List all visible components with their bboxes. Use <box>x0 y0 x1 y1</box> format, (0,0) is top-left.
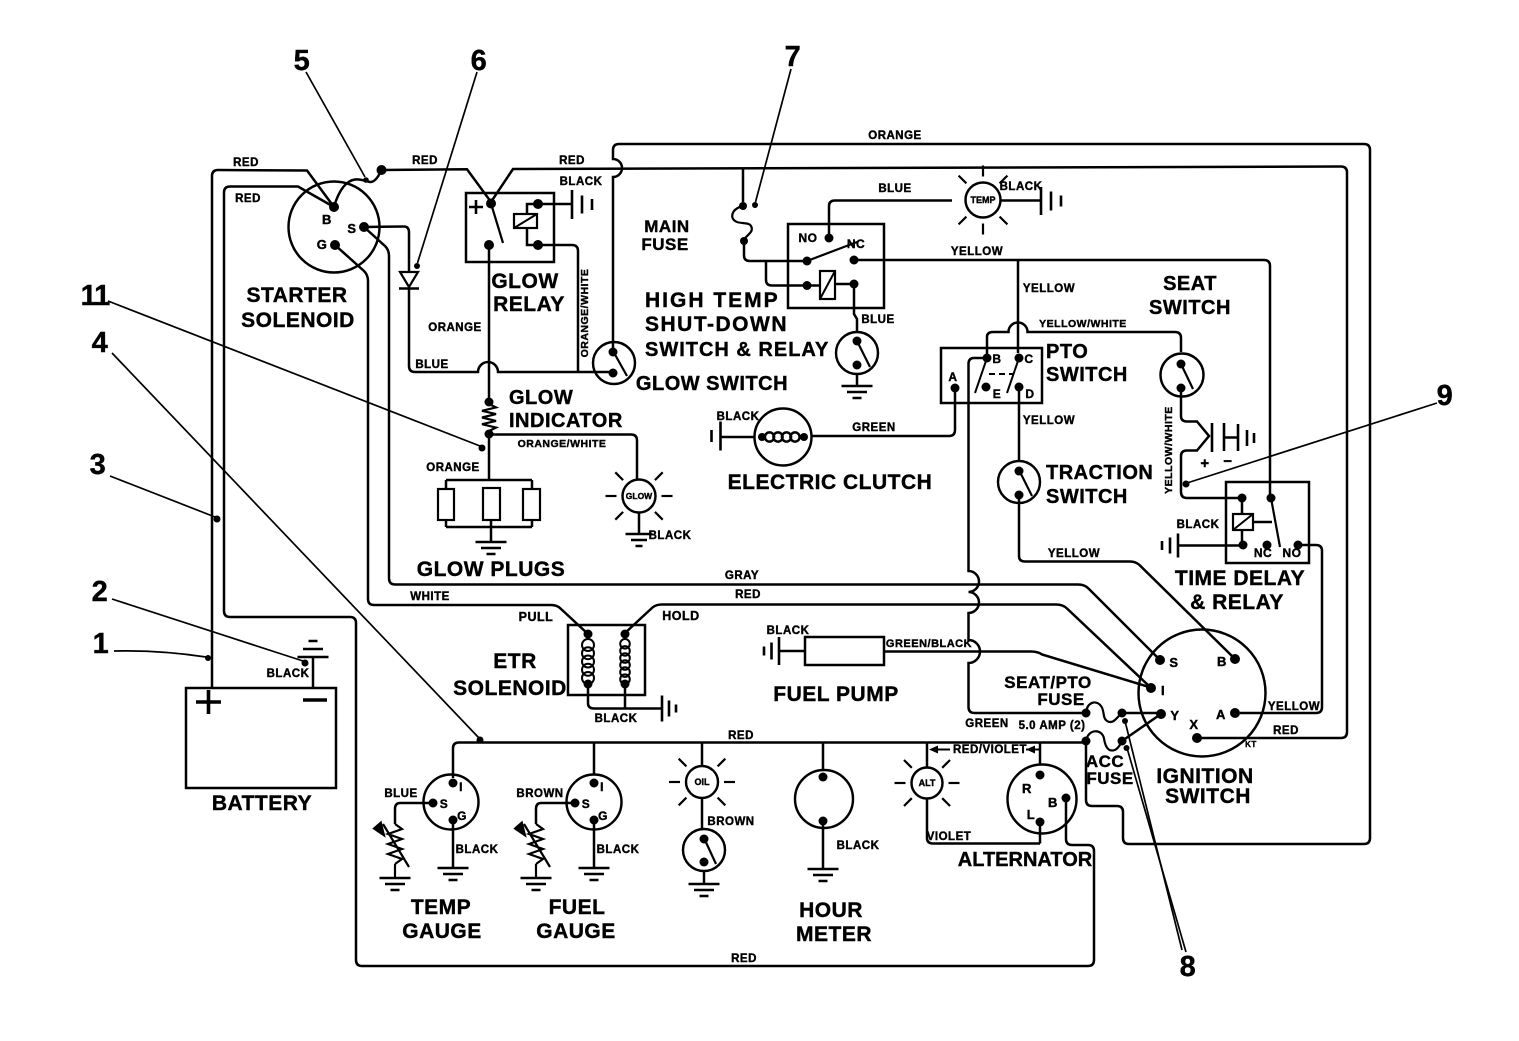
svg-text:PULL: PULL <box>519 610 554 624</box>
leader 1 dot <box>205 655 211 661</box>
shut-down switch blade <box>857 341 870 367</box>
PTO terminal D <box>1015 383 1024 392</box>
svg-text:ETR: ETR <box>493 650 537 673</box>
glow relay switch blade <box>491 204 503 244</box>
time relay NC terminal <box>1263 541 1272 550</box>
wire RED gauges bus from temp gauge corner to acc fuse <box>453 741 1086 778</box>
svg-text:BLUE: BLUE <box>384 788 417 800</box>
temp sender rheostat ground <box>380 878 411 890</box>
ground glow lamp <box>626 534 653 546</box>
alternator terminal L <box>1036 818 1045 827</box>
wire alternator L down to violet run <box>1039 822 1042 844</box>
leader 6 <box>418 72 478 263</box>
fuel pump body <box>805 637 884 665</box>
svg-text:SWITCH: SWITCH <box>1149 297 1231 319</box>
svg-text:KT: KT <box>1245 740 1257 749</box>
glow plugs top rail <box>446 479 532 482</box>
glow relay coil top terminal <box>533 199 543 209</box>
svg-text:VIOLET: VIOLET <box>927 831 972 843</box>
seat/pto fuse left terminal <box>1082 709 1091 718</box>
wire time relay NO to ignition A (YELLOW) <box>1240 545 1322 713</box>
wire glow relay coil bottom right and down (ORANGE/WHITE) <box>538 245 578 371</box>
ground temp sender <box>1041 187 1061 215</box>
svg-text:+: + <box>1200 455 1209 472</box>
svg-text:GAUGE: GAUGE <box>536 920 616 943</box>
glow indicator lamp <box>623 480 656 513</box>
svg-text:S: S <box>582 797 591 811</box>
wire acc fuse to ignition Y <box>1122 716 1158 741</box>
svg-text:S: S <box>1169 655 1178 670</box>
wire oil lamp drop <box>701 743 704 767</box>
hour meter top terminal <box>819 773 828 782</box>
svg-text:1: 1 <box>93 628 110 660</box>
time relay coil bottom terminal <box>1239 541 1248 550</box>
wire time relay coil to blade link <box>1253 521 1272 524</box>
ETR pull coil top <box>584 630 593 639</box>
leader 2 <box>112 599 303 661</box>
svg-text:HIGH TEMP: HIGH TEMP <box>645 289 780 312</box>
wire glow relay coil top link <box>527 204 538 214</box>
temp gauge terminal I <box>449 779 458 788</box>
svg-text:BROWN: BROWN <box>707 816 754 828</box>
oil pressure lamp <box>686 766 718 798</box>
time relay coil top terminal <box>1238 494 1247 503</box>
seat switch top terminal <box>1177 360 1186 369</box>
ETR pull coil bottom <box>584 680 593 689</box>
svg-text:STARTER: STARTER <box>246 284 347 307</box>
svg-text:B: B <box>1217 654 1227 669</box>
leader 4 dot <box>477 737 484 744</box>
wire fuel pump to ground <box>780 650 805 653</box>
svg-text:I: I <box>459 780 463 794</box>
wire YELLOW/WHITE: PTO B up, right with hop over yellow, down to seat switch <box>987 323 1181 359</box>
wire glow relay coil top to ground <box>538 203 571 206</box>
svg-text:7: 7 <box>785 41 802 73</box>
wire branch to relay coil + <box>766 261 803 286</box>
svg-text:ORANGE/WHITE: ORANGE/WHITE <box>579 269 591 358</box>
wire VIOLET alt lamp to alternator L <box>927 799 1040 844</box>
svg-text:YELLOW: YELLOW <box>1023 283 1075 295</box>
svg-text:FUSE: FUSE <box>1037 690 1084 709</box>
relay coil right terminal <box>850 280 859 289</box>
svg-text:YELLOW: YELLOW <box>1023 415 1075 427</box>
oil pressure switch body <box>683 829 725 871</box>
svg-text:HOUR: HOUR <box>799 899 863 922</box>
glow plug stub 3 bottom <box>531 520 534 527</box>
seat switch bottom terminal <box>1177 384 1186 393</box>
PTO terminal A <box>951 384 960 393</box>
temp gauge body <box>424 775 479 830</box>
wire BROWN fuel sender wire <box>536 803 575 824</box>
seat/pto fuse right terminal <box>1118 709 1127 718</box>
electric clutch coil <box>765 432 774 441</box>
time relay coil <box>1233 514 1253 530</box>
ground fuel pump <box>764 637 779 665</box>
relay NC terminal <box>850 256 859 265</box>
wire alternator R drop <box>1039 743 1042 766</box>
red/violet arrows <box>936 749 1041 751</box>
ignition terminal S <box>1155 655 1165 665</box>
glow plug 3 <box>523 489 540 520</box>
svg-text:OIL: OIL <box>695 777 711 787</box>
wire time relay coil top link <box>1241 498 1244 514</box>
svg-text:SOLENOID: SOLENOID <box>241 309 355 332</box>
main fuse top terminal <box>739 202 747 210</box>
svg-text:YELLOW/WHITE: YELLOW/WHITE <box>1163 406 1175 494</box>
svg-text:BLACK: BLACK <box>1000 181 1043 193</box>
svg-text:ALT: ALT <box>919 778 936 788</box>
time relay NO terminal <box>1294 541 1303 550</box>
alternator body <box>1008 765 1077 834</box>
leader 7 dot <box>752 202 758 208</box>
temp sender lamp <box>966 183 1001 218</box>
svg-text:RED: RED <box>735 589 761 601</box>
glow plugs bottom rail <box>446 526 532 529</box>
svg-text:& RELAY: & RELAY <box>1190 591 1284 614</box>
svg-text:SOLENOID: SOLENOID <box>453 677 567 700</box>
relay coil diagonal <box>820 271 835 299</box>
ground fuel gauge <box>579 868 610 880</box>
svg-text:G: G <box>598 809 608 823</box>
svg-text:RELAY: RELAY <box>493 293 565 316</box>
time delay relay box <box>1226 482 1309 563</box>
svg-text:BLACK: BLACK <box>717 411 760 423</box>
glow relay + terminal <box>486 199 496 209</box>
svg-text:B: B <box>1048 795 1058 810</box>
relay NO terminal <box>825 234 834 243</box>
svg-text:BLACK: BLACK <box>560 176 603 188</box>
oil switch top terminal <box>700 835 709 844</box>
fuel sender rheostat zigzag <box>529 824 543 864</box>
svg-text:INDICATOR: INDICATOR <box>509 410 623 432</box>
svg-text:GAUGE: GAUGE <box>402 920 482 943</box>
svg-text:BROWN: BROWN <box>516 788 563 800</box>
leader 6 dot <box>414 263 420 269</box>
svg-text:S: S <box>440 797 449 811</box>
relay common terminal <box>803 257 812 266</box>
wire main fuse to relay common <box>744 241 803 261</box>
PTO switch box <box>941 348 1042 403</box>
wire PTO A down and left to electric clutch <box>812 388 955 436</box>
svg-text:FUSE: FUSE <box>641 235 688 254</box>
svg-text:RED: RED <box>233 157 259 169</box>
wire curved jumper starter B to RED bus junction <box>334 170 382 207</box>
wire WHITE: starter G down and across to ETR PULL coil <box>335 245 588 634</box>
seat/pto fuse element <box>1086 702 1122 722</box>
alternator terminal B <box>1062 794 1071 803</box>
starter solenoid body <box>289 182 380 273</box>
svg-text:5.0 AMP (2): 5.0 AMP (2) <box>1019 720 1086 732</box>
leader 3 dot <box>214 516 221 523</box>
oil switch blade <box>704 838 716 864</box>
svg-text:RED: RED <box>1273 725 1299 737</box>
svg-text:SWITCH: SWITCH <box>1046 364 1128 386</box>
battery - symbol <box>303 698 327 702</box>
wire ETR coils to ground (BLACK) <box>588 684 661 709</box>
svg-text:TIME DELAY: TIME DELAY <box>1175 567 1305 590</box>
fuel gauge terminal S <box>571 799 580 808</box>
ETR pull coil <box>582 639 594 651</box>
temp sender rheostat zigzag <box>388 824 402 864</box>
svg-text:BLACK: BLACK <box>767 625 810 637</box>
svg-text:TEMP: TEMP <box>970 195 995 205</box>
wire BLUE from NO up and right to temp sender <box>829 201 952 239</box>
electric clutch left terminal <box>758 433 766 441</box>
glow switch bottom terminal <box>609 369 618 378</box>
svg-text:BLUE: BLUE <box>878 183 911 195</box>
ignition switch body <box>1139 630 1266 757</box>
acc fuse element <box>1086 731 1123 750</box>
wire coil right down to shut-down switch <box>854 284 857 331</box>
wire BLUE temp sender wire <box>395 803 433 824</box>
wire RED mid run: ETR HOLD coil up to line, across to ignition I <box>625 605 1149 687</box>
glow relay output terminal <box>484 240 494 250</box>
glow plug stub 3 <box>531 480 534 489</box>
glow plug 1 <box>438 489 454 520</box>
leader 4 <box>112 353 479 738</box>
ground hour meter <box>808 869 839 881</box>
wire RED top bus from junction right, V-dip into glow relay +, to right frame, down to ignition X <box>382 167 1347 739</box>
leader 3 <box>110 476 215 517</box>
leader 11 dot <box>479 445 486 452</box>
PTO blade C <box>1007 358 1019 393</box>
svg-text:GREEN: GREEN <box>852 422 895 434</box>
svg-text:GLOW: GLOW <box>626 491 653 501</box>
capacitor plates <box>1212 423 1254 452</box>
svg-text:4: 4 <box>92 327 109 359</box>
svg-text:GREEN: GREEN <box>965 718 1008 730</box>
wire alt lamp drop <box>926 743 929 769</box>
svg-text:RED: RED <box>235 193 261 205</box>
wire main fuse drop from RED bus <box>742 169 745 203</box>
svg-text:NC: NC <box>1254 546 1272 560</box>
leader 2 dot <box>302 660 309 667</box>
svg-text:METER: METER <box>796 923 872 946</box>
glow indicator top terminal <box>485 398 494 407</box>
wire temp gauge G to ground <box>452 820 455 867</box>
PTO blade B <box>975 358 987 393</box>
PTO link dashed <box>989 373 1013 375</box>
svg-text:GLOW PLUGS: GLOW PLUGS <box>417 558 566 581</box>
glow indicator bottom terminal <box>485 430 494 439</box>
glow relay coil bottom terminal <box>533 240 543 250</box>
glow plug stub 1 <box>445 480 448 489</box>
svg-text:GRAY: GRAY <box>725 570 759 582</box>
svg-text:WHITE: WHITE <box>410 591 450 603</box>
svg-text:HOLD: HOLD <box>662 609 699 623</box>
svg-text:TEMP: TEMP <box>411 896 471 919</box>
wire ORANGE/WHITE indicator to glow lamp <box>489 435 637 480</box>
svg-text:FUSE: FUSE <box>1086 769 1133 788</box>
svg-text:A: A <box>948 370 957 384</box>
svg-text:FUEL PUMP: FUEL PUMP <box>773 683 898 706</box>
oil switch bottom terminal <box>700 858 709 867</box>
diode anode triangle <box>400 272 418 287</box>
svg-text:RED: RED <box>559 155 585 167</box>
leader 5 <box>306 72 365 177</box>
alternator terminal R <box>1036 771 1045 780</box>
svg-text:G: G <box>317 237 328 252</box>
fuel sender rheostat stem <box>535 864 537 877</box>
svg-text:ORANGE/WHITE: ORANGE/WHITE <box>518 438 607 450</box>
ground time delay relay <box>1162 534 1178 558</box>
svg-text:D: D <box>1025 387 1034 401</box>
wire seat/pto fuse to ignition Y <box>1122 712 1157 715</box>
main fuse bottom terminal <box>740 237 748 245</box>
svg-text:MAIN: MAIN <box>644 217 689 236</box>
svg-text:BLACK: BLACK <box>837 840 880 852</box>
leader 5 dot <box>363 177 369 183</box>
svg-text:BLACK: BLACK <box>1177 519 1220 531</box>
traction switch body <box>998 461 1040 503</box>
svg-text:ORANGE: ORANGE <box>868 130 921 142</box>
svg-text:SWITCH & RELAY: SWITCH & RELAY <box>645 339 829 361</box>
glow relay + mark <box>469 200 483 214</box>
svg-text:I: I <box>600 780 604 794</box>
svg-text:SHUT-DOWN: SHUT-DOWN <box>645 313 788 336</box>
svg-text:NO: NO <box>1283 546 1302 560</box>
time relay armature terminal <box>1267 494 1276 503</box>
wire ORANGE glow plugs feed <box>488 435 491 481</box>
glow switch body <box>593 342 635 384</box>
svg-text:Y: Y <box>1170 708 1179 723</box>
wire coil right link <box>835 283 854 286</box>
diode cathode bar <box>399 287 419 290</box>
ground shut-down switch <box>842 386 873 398</box>
leader 11 <box>108 301 480 446</box>
ETR hold coil top <box>621 630 630 639</box>
leader 8 line b <box>1127 748 1186 952</box>
fuel gauge body <box>567 775 622 830</box>
relay coil <box>820 271 835 299</box>
svg-text:ELECTRIC CLUTCH: ELECTRIC CLUTCH <box>728 471 933 494</box>
svg-text:SEAT: SEAT <box>1163 273 1217 295</box>
leader 7 <box>756 69 792 202</box>
svg-text:E: E <box>993 387 1002 401</box>
svg-text:RED: RED <box>728 730 754 742</box>
wire YELLOW: PTO D down to traction switch <box>1018 387 1021 460</box>
svg-text:5: 5 <box>294 45 311 77</box>
glow switch top terminal <box>609 348 618 357</box>
svg-text:G: G <box>457 809 467 823</box>
svg-text:11: 11 <box>81 280 111 312</box>
svg-text:3: 3 <box>90 449 107 481</box>
glow plug stub 1 bottom <box>445 520 448 527</box>
fuel sender rheostat arrow <box>524 824 550 867</box>
ground ETR <box>662 696 676 722</box>
wire ORANGE loop: glow switch stem up, hop over RED, top run, right side down, bottom to ACC fuse <box>613 144 1370 844</box>
PTO terminal B <box>983 354 992 363</box>
wire YELLOW traction switch to ignition B <box>1019 495 1233 657</box>
wire time relay coil bottom to ground <box>1179 544 1243 547</box>
temp sender rheostat arrow <box>383 824 409 867</box>
shut-down switch top terminal <box>853 337 862 346</box>
svg-text:RED: RED <box>412 155 438 167</box>
wire GRAY: starter S down and across to ignition S <box>364 227 1158 658</box>
traction switch blade <box>1019 470 1032 496</box>
svg-text:GREEN/BLACK: GREEN/BLACK <box>886 638 972 650</box>
PTO terminal E <box>982 383 991 392</box>
svg-text:I: I <box>1161 683 1165 698</box>
leader 8 dot a <box>1122 718 1128 724</box>
svg-text:RED/VIOLET: RED/VIOLET <box>953 744 1027 756</box>
wire RED second run from starter B left, down, across, down right side to bottom RED bus, up to alternator B <box>224 187 1094 967</box>
svg-text:YELLOW: YELLOW <box>1268 701 1320 713</box>
svg-text:9: 9 <box>1437 380 1454 412</box>
wire hour meter drop <box>822 743 825 771</box>
main fuse element <box>732 206 752 240</box>
svg-text:GLOW: GLOW <box>509 387 573 409</box>
relay switch blade <box>807 242 857 261</box>
svg-text:ORANGE: ORANGE <box>426 462 479 474</box>
svg-text:TRACTION: TRACTION <box>1046 462 1153 484</box>
starter terminal G <box>330 240 340 250</box>
svg-text:B: B <box>992 352 1001 366</box>
glow switch blade <box>613 351 627 376</box>
svg-text:RED: RED <box>731 953 757 965</box>
wire oil switch to ground <box>703 871 706 883</box>
wire starter S to diode <box>364 227 409 272</box>
wire BLUE: diode down, across with hop, to glow switch lower terminal <box>409 289 610 372</box>
glow indicator resistor <box>482 404 496 431</box>
wire coil left link <box>807 284 820 287</box>
starter terminal B <box>329 202 339 212</box>
svg-text:2: 2 <box>92 576 109 608</box>
traction switch bottom terminal <box>1015 491 1024 500</box>
ETR hold coil bottom <box>621 680 630 689</box>
wire battery + feed (RED) from battery up-left side to starter B <box>212 170 334 688</box>
svg-text:8: 8 <box>1180 951 1197 983</box>
ground temp gauge <box>438 868 469 880</box>
wire oil lamp to oil switch (BROWN) <box>701 798 704 829</box>
leader 8 dot b <box>1124 745 1130 751</box>
wire time relay coil bottom link <box>1241 530 1244 545</box>
svg-text:C: C <box>1024 352 1033 366</box>
wire YELLOW from relay NC right and down to time delay relay <box>854 260 1270 498</box>
wire battery negative to ground <box>312 657 315 688</box>
leader 1 <box>114 651 206 657</box>
svg-text:GLOW SWITCH: GLOW SWITCH <box>636 373 788 395</box>
traction switch top terminal <box>1015 467 1024 476</box>
svg-text:ORANGE: ORANGE <box>428 322 481 334</box>
ground battery negative <box>298 641 329 657</box>
svg-text:−: − <box>1223 453 1232 470</box>
svg-text:B: B <box>322 212 332 227</box>
svg-text:SWITCH: SWITCH <box>1165 785 1251 808</box>
glow relay box <box>466 193 554 262</box>
battery + symbol <box>196 690 221 714</box>
svg-text:YELLOW: YELLOW <box>1048 548 1100 560</box>
svg-text:BLACK: BLACK <box>597 844 640 856</box>
seat switch body <box>1161 354 1204 397</box>
ETR solenoid box <box>568 625 645 695</box>
ignition terminal I <box>1146 683 1156 693</box>
svg-text:SWITCH: SWITCH <box>1046 486 1128 508</box>
glow relay coil diagonal <box>514 214 537 228</box>
ignition terminal B <box>1230 654 1240 664</box>
ETR hold coil <box>620 639 630 649</box>
electric clutch right terminal <box>800 433 808 441</box>
svg-text:BLACK: BLACK <box>649 530 692 542</box>
svg-text:BLACK: BLACK <box>456 844 499 856</box>
acc fuse right terminal <box>1118 737 1127 746</box>
acc fuse left terminal <box>1082 737 1091 746</box>
wire shut-down switch to ground <box>856 374 859 385</box>
high temp relay box <box>788 224 884 308</box>
svg-text:A: A <box>1216 707 1226 722</box>
starter terminal S <box>359 222 369 232</box>
glow plug 2 <box>483 488 500 520</box>
